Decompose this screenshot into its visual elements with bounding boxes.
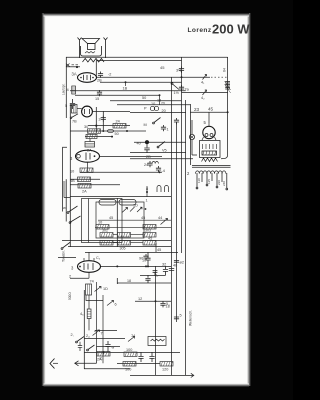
- junction dot x227 y112: [227, 111, 229, 113]
- antenna symbol bottom left: [50, 359, 58, 369]
- cap 10 above y266: [143, 254, 148, 260]
- junction: [103, 351, 105, 353]
- wire y278 stub: [70, 277, 89, 279]
- wire bottom y375 with arrow: [130, 374, 190, 376]
- svg-text:2,: 2,: [71, 333, 74, 337]
- trimmer arrow near 74: [128, 337, 135, 342]
- cap 32 below plate wire: [163, 266, 168, 275]
- svg-text:1: 1: [167, 128, 169, 132]
- svg-text:m: m: [162, 101, 165, 105]
- wire y346.5 stub: [97, 346, 121, 348]
- cap at x171 y270: [169, 269, 174, 271]
- svg-text:45: 45: [109, 216, 113, 220]
- wire right bus x176: [176, 122, 178, 322]
- svg-text:20: 20: [162, 109, 166, 113]
- wire y90 row: [70, 90, 186, 92]
- wire right bus x185: [185, 100, 187, 375]
- svg-text:3½: 3½: [176, 69, 182, 73]
- resistor 4A vertical left: [67, 86, 76, 94]
- wire top bus y57: [66, 56, 228, 58]
- wire V2 plate right: [92, 111, 130, 113]
- wire y92.5 right segment: [182, 92, 228, 94]
- capacitor 7 below dot: [144, 144, 149, 152]
- cap on x176 y318: [174, 317, 179, 319]
- wire y246 row: [68, 245, 171, 247]
- svg-text:46: 46: [173, 264, 177, 268]
- junction x146 y266: [145, 265, 147, 267]
- svg-text:5: 5: [180, 314, 182, 318]
- capacitor 2 on x103: [101, 116, 106, 122]
- fuse Si: [189, 134, 194, 139]
- wire drop x90: [89, 139, 91, 142]
- svg-text:32: 32: [162, 263, 166, 267]
- resistor 485 vertical: [87, 309, 91, 319]
- svg-text:1B: 1B: [123, 87, 128, 91]
- wire y368 stub: [84, 368, 130, 370]
- small box 2A: [85, 142, 95, 148]
- capacitor 16 on x181: [179, 67, 184, 73]
- wire right bus x181: [181, 57, 183, 253]
- svg-text:10: 10: [151, 102, 155, 106]
- svg-text:1D: 1D: [103, 287, 108, 291]
- dot y82 mid: [125, 81, 127, 83]
- wire bus x96: [95, 61, 97, 133]
- cap 182 at x163: [160, 301, 165, 307]
- switch arm S3 bottom: [61, 242, 70, 249]
- pins above V4: [84, 252, 94, 260]
- svg-text:15: 15: [95, 97, 99, 101]
- svg-text:240: 240: [222, 181, 226, 186]
- resistor 24 horizontal: [113, 124, 126, 129]
- svg-text:100: 100: [126, 348, 132, 352]
- trimmer arrow P7: [93, 330, 100, 336]
- wire corner from 303 box to y252: [155, 243, 157, 252]
- primary winding loops: [196, 171, 226, 174]
- wire y240 row: [62, 239, 171, 241]
- svg-text:w: w: [63, 206, 66, 210]
- svg-text:18: 18: [127, 279, 131, 283]
- wire y136.5 stub: [85, 136, 113, 138]
- arrow trimmer: [161, 219, 168, 225]
- wire T4 plate y266: [100, 265, 171, 267]
- resistor 100a: [97, 352, 110, 357]
- cap pair mid: [138, 352, 154, 362]
- resistor 2A row: [78, 184, 91, 189]
- resistor 100c: [123, 362, 136, 367]
- wire y172 row: [80, 171, 162, 173]
- switch arm mid y143: [157, 142, 165, 148]
- power transformer block: [189, 120, 230, 190]
- coil box a: [99, 200, 116, 206]
- resistor 120: [160, 362, 173, 367]
- svg-text:Tonabn.: Tonabn.: [62, 250, 66, 262]
- wire y330 stub: [95, 329, 117, 331]
- resistor 304: [143, 241, 156, 246]
- wire y112 transformer top: [190, 111, 227, 113]
- trimmer marks top: [122, 207, 142, 213]
- svg-text:100: 100: [125, 368, 131, 372]
- resistor 10A: [80, 168, 93, 173]
- svg-text:V5: V5: [162, 149, 167, 153]
- stub x147 with dot: [146, 186, 148, 197]
- wire second top y60.5: [96, 60, 182, 62]
- wire left bus x70: [69, 104, 71, 247]
- coil small at y161: [152, 162, 158, 164]
- svg-text:45: 45: [208, 107, 214, 112]
- svg-text:50: 50: [115, 132, 119, 136]
- dot y136 x112: [111, 136, 113, 138]
- cap 10 on y252 drop: [145, 252, 150, 266]
- cap vertical near antenna wire: [105, 341, 110, 352]
- dots on V4 plate wire: [116, 265, 118, 267]
- svg-text:125: 125: [207, 179, 211, 184]
- wire far right bus x227: [221, 57, 228, 159]
- wire y104 row: [117, 104, 190, 106]
- wire right bus x190: [189, 104, 191, 165]
- junction x181 y77: [181, 76, 183, 78]
- wire V3 down: [87, 162, 89, 172]
- svg-text:2A: 2A: [87, 149, 92, 153]
- svg-text:45: 45: [157, 248, 161, 252]
- svg-text:10: 10: [98, 221, 102, 225]
- hatch resistor y134: [86, 134, 97, 138]
- svg-text:2₄: 2₄: [86, 334, 90, 338]
- wire y257 stub: [58, 256, 76, 258]
- switch arm S1: [67, 206, 77, 213]
- capacitor 5 lower left: [70, 99, 75, 109]
- wire y184 stub: [70, 184, 120, 186]
- trimmer arrow at 98 288: [95, 287, 102, 292]
- svg-text:500Ω: 500Ω: [68, 292, 72, 300]
- svg-text:10: 10: [70, 170, 74, 174]
- svg-text:50: 50: [142, 96, 146, 100]
- capacitor TA on x181 y86: [179, 85, 184, 91]
- wire bus x117: [116, 198, 118, 284]
- wire left bus x66: [65, 57, 67, 118]
- coupling oval on y131: [108, 129, 114, 132]
- mid cluster: osc coil 10: [150, 106, 158, 110]
- coil box b: [119, 200, 136, 206]
- svg-text:3A: 3A: [72, 72, 77, 77]
- svg-text:30: 30: [84, 125, 88, 129]
- svg-text:2D: 2D: [146, 155, 151, 159]
- wire y131 row: [70, 130, 146, 132]
- svg-text:45: 45: [141, 216, 145, 220]
- svg-text:Lautspr.: Lautspr.: [62, 83, 66, 95]
- svg-text:4B: 4B: [70, 179, 75, 183]
- svg-text:40: 40: [137, 142, 141, 146]
- svg-text:7: 7: [101, 332, 103, 336]
- wire T3 plate y156: [99, 155, 162, 157]
- svg-text:302: 302: [102, 229, 108, 233]
- resistor 45c: [143, 225, 156, 230]
- wire y179 stub: [70, 178, 100, 180]
- svg-text:45: 45: [160, 65, 165, 70]
- svg-text:220: 220: [217, 180, 221, 185]
- svg-text:24: 24: [144, 163, 148, 167]
- caps right of V3: [147, 161, 152, 167]
- speaker LS: [78, 38, 108, 59]
- svg-text:74: 74: [90, 280, 94, 284]
- svg-text:64: 64: [223, 68, 227, 72]
- box outline band unit: [82, 199, 145, 243]
- wire y112 row: [130, 112, 186, 114]
- svg-text:23: 23: [194, 107, 200, 112]
- core double line: [192, 165, 231, 167]
- wire y77 row: [96, 76, 210, 78]
- svg-text:M: M: [144, 123, 147, 127]
- resistor 30A hatched: [202, 151, 217, 155]
- svg-text:Lorenz: Lorenz: [188, 27, 212, 34]
- svg-text:ø2: ø2: [180, 261, 184, 265]
- junction y131 x103: [102, 130, 104, 132]
- capacitor on y77 left: [98, 72, 103, 78]
- resistor 4B: [78, 177, 91, 182]
- resistor 100b: [124, 352, 137, 357]
- junction dot grid cap: [76, 66, 78, 68]
- svg-text:44: 44: [158, 216, 162, 220]
- svg-text:12: 12: [138, 297, 142, 301]
- mains taps: [197, 173, 227, 188]
- wire y77 dotted continuation: [211, 76, 228, 78]
- wire right bus x171: [171, 77, 173, 376]
- svg-text:110: 110: [197, 178, 201, 183]
- cap below y275: [145, 275, 150, 283]
- cap small below y270: [153, 271, 158, 277]
- anode arrow mark y77: [203, 75, 207, 80]
- svg-text:C₂: C₂: [96, 256, 101, 260]
- tube V2 (round, mixer): [82, 105, 93, 117]
- rectifier filament box: [200, 141, 221, 158]
- junction x159 y95 with drop: [159, 94, 161, 96]
- tube V3 (oval, IF): [76, 150, 100, 162]
- svg-text:w: w: [112, 346, 115, 350]
- resistor 30 on y131: [88, 129, 101, 134]
- heater loops above box: [157, 186, 169, 193]
- pickup wire with arrow: [75, 347, 97, 366]
- zigzag resistor: [202, 158, 218, 162]
- resistor 301: [100, 241, 113, 246]
- wire y82 row: [100, 81, 182, 83]
- svg-text:Wellensch.: Wellensch.: [189, 310, 193, 326]
- resistor 303: [143, 233, 156, 238]
- svg-text:1½: 1½: [174, 91, 180, 95]
- wire y66 stub: [66, 66, 80, 68]
- dial lamp dot: [145, 140, 149, 144]
- svg-text:2A: 2A: [97, 358, 102, 362]
- svg-text:-2: -2: [108, 73, 111, 77]
- wire y275 stub: [140, 274, 166, 276]
- wire y301 row: [135, 300, 171, 302]
- svg-text:2B: 2B: [97, 79, 102, 83]
- tube V1 (oval, RF pentode): [78, 73, 97, 83]
- switch mark y347: [87, 345, 95, 351]
- junction dot y125 x96: [95, 125, 97, 127]
- small box below V4: [86, 284, 92, 295]
- output transformer winding under speaker: [83, 58, 104, 62]
- svg-text:6: 6: [115, 303, 117, 307]
- arrow right at line end: [190, 373, 194, 377]
- wire switch feed left b: [65, 179, 67, 221]
- capacitor 1 on x163: [161, 125, 166, 131]
- dot top row: [145, 208, 147, 210]
- switch contact at y82 right: [171, 83, 179, 90]
- box with squiggle right of y338: [148, 337, 166, 346]
- wire y363 stub: [117, 363, 160, 365]
- wire mid bus x155: [155, 266, 157, 375]
- switch arm mid y120: [153, 118, 161, 124]
- svg-text:2: 2: [69, 275, 71, 279]
- switch arm y338: [76, 337, 84, 343]
- svg-text:200 W: 200 W: [212, 22, 250, 37]
- striped box left of V2: [72, 105, 78, 114]
- wire y142 row: [134, 141, 186, 143]
- wire y95 row: [75, 94, 160, 96]
- svg-text:24: 24: [116, 120, 120, 124]
- resistor 306: [118, 241, 131, 246]
- wire bus x103: [102, 111, 104, 130]
- dot y131 x127: [126, 130, 128, 132]
- wire y158 to transformer: [130, 158, 193, 160]
- wire V2 left: [77, 108, 82, 110]
- tube V5 (rectifier, round): [202, 123, 216, 140]
- svg-text:7B: 7B: [72, 120, 77, 124]
- page: [44, 15, 250, 386]
- wire y220: [98, 219, 171, 221]
- switch arm below V2: [70, 114, 78, 119]
- capacitor 15 on y95: [97, 90, 102, 96]
- wire y338 stub: [84, 337, 125, 339]
- svg-text:2A: 2A: [82, 190, 87, 194]
- wire y227.5: [95, 227, 171, 229]
- wire rect anode: [208, 112, 210, 123]
- wire x96.5 down: [96, 282, 98, 347]
- wire row connects: [113, 235, 143, 243]
- pickup terminal double wire: [64, 181, 70, 198]
- trimmer arrow 6: [107, 301, 114, 306]
- soft border edges: [42, 13, 46, 386]
- wire y252 row: [85, 251, 178, 253]
- wire y196 box top: [70, 196, 171, 198]
- svg-text:90: 90: [139, 257, 143, 261]
- wire switch feed left a: [63, 147, 67, 211]
- switch arm S2: [69, 216, 80, 223]
- cap bars left: [78, 342, 82, 351]
- winding on right bus: [225, 81, 231, 93]
- tube V4 (oval, output): [78, 261, 101, 273]
- svg-text:303: 303: [145, 229, 151, 233]
- svg-text:45: 45: [148, 237, 152, 241]
- svg-text:4₅: 4₅: [80, 312, 84, 316]
- junction y301: [155, 300, 157, 302]
- box outline lower: [86, 295, 103, 363]
- resistor 305: [118, 233, 131, 238]
- svg-text:5₂: 5₂: [166, 302, 170, 306]
- svg-text:1: 1: [146, 199, 148, 203]
- resistor 10A band: [96, 225, 109, 230]
- cap on x176 y122: [174, 118, 179, 124]
- wire x89 down: [89, 295, 95, 332]
- main ink: [58, 57, 228, 376]
- top mark xC near speaker: [66, 64, 78, 67]
- anode arrow mark y92: [203, 90, 207, 95]
- svg-text:305: 305: [120, 247, 126, 251]
- wire chassis box left edge: [83, 290, 85, 369]
- wire y352 row: [84, 351, 180, 353]
- wire y100 row: [110, 100, 182, 102]
- stub down with label 1B: [125, 82, 127, 86]
- svg-text:2: 2: [99, 118, 101, 122]
- svg-text:-4: -4: [162, 169, 165, 173]
- svg-text:120: 120: [162, 368, 168, 372]
- wire y152 row: [130, 152, 186, 154]
- wire y283 row: [117, 282, 171, 284]
- svg-text:1D: 1D: [133, 204, 138, 208]
- cap pair on x176 y261: [174, 260, 179, 262]
- resistor 302: [100, 233, 113, 238]
- wire y125.5 row: [88, 125, 130, 127]
- wire V4 cathode down: [88, 272, 90, 278]
- svg-text:4₂: 4₂: [201, 96, 205, 100]
